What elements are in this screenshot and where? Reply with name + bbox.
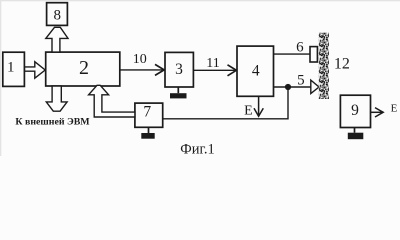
svg-text:3: 3: [175, 61, 183, 78]
arrow from box 9 to E: [371, 108, 384, 117]
svg-text:Е: Е: [391, 102, 398, 114]
svg-text:12: 12: [334, 56, 350, 73]
box 8: [47, 3, 68, 26]
sensor rect on bar (wire 6): [310, 47, 317, 62]
box 3: [165, 52, 193, 87]
ground under box 3: [170, 87, 187, 98]
wire 10 with arrowhead into box 3: [120, 64, 164, 75]
wire 11 with arrowhead into box 4: [193, 65, 236, 76]
junction dot: [285, 84, 291, 90]
arrow E down from box 4: [254, 96, 263, 116]
box 2: [46, 52, 120, 86]
wire 5: [274, 86, 311, 88]
box 4: [237, 46, 274, 96]
svg-text:11: 11: [206, 56, 219, 71]
box 1: [3, 52, 25, 86]
svg-text:К внешней ЭВМ: К внешней ЭВМ: [15, 117, 90, 128]
svg-text:E: E: [244, 103, 253, 118]
feedback wire from dot to box 7: [163, 87, 288, 119]
svg-text:8: 8: [54, 8, 62, 24]
bar 12 (stippled): [319, 33, 329, 99]
svg-text:1: 1: [7, 59, 15, 75]
block arrow 1 to 2: [25, 62, 46, 78]
svg-text:Фиг.1: Фиг.1: [180, 142, 214, 156]
svg-text:2: 2: [79, 57, 89, 79]
svg-text:10: 10: [133, 52, 147, 67]
elbow block arrow 7 to 2: [89, 85, 135, 117]
svg-text:7: 7: [143, 104, 151, 121]
box 9: [340, 95, 370, 127]
page background: [0, 0, 400, 156]
box 7: [135, 103, 163, 127]
triangle probe on bar (wire 5): [311, 80, 319, 94]
ground under box 7: [141, 127, 154, 138]
block arrow 2 down to external computer: [46, 86, 67, 111]
block arrow 2 to 8: [46, 27, 68, 52]
svg-text:9: 9: [351, 102, 359, 119]
ground under box 9: [348, 128, 364, 140]
wire 6: [274, 53, 311, 55]
svg-text:6: 6: [296, 39, 304, 55]
svg-text:4: 4: [252, 62, 260, 79]
svg-text:5: 5: [297, 73, 305, 89]
